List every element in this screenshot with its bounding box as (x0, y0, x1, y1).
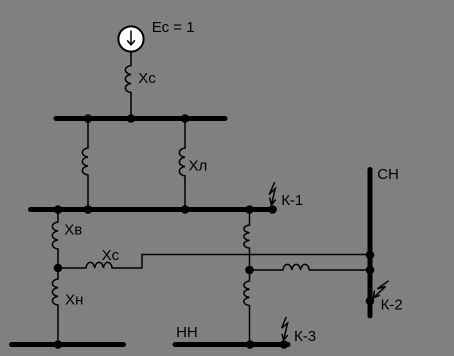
svg-text:СН: СН (377, 166, 399, 183)
svg-text:К-1: К-1 (281, 192, 303, 209)
svg-text:Хн: Хн (65, 292, 83, 309)
svg-text:Ес = 1: Ес = 1 (152, 19, 195, 36)
svg-text:Хв: Хв (64, 222, 82, 239)
svg-text:Хс: Хс (102, 247, 120, 264)
svg-text:Хс: Хс (138, 70, 156, 87)
svg-text:К-3: К-3 (294, 328, 316, 345)
svg-text:Хл: Хл (189, 158, 208, 175)
svg-text:НН: НН (176, 324, 198, 341)
svg-text:К-2: К-2 (381, 296, 403, 313)
